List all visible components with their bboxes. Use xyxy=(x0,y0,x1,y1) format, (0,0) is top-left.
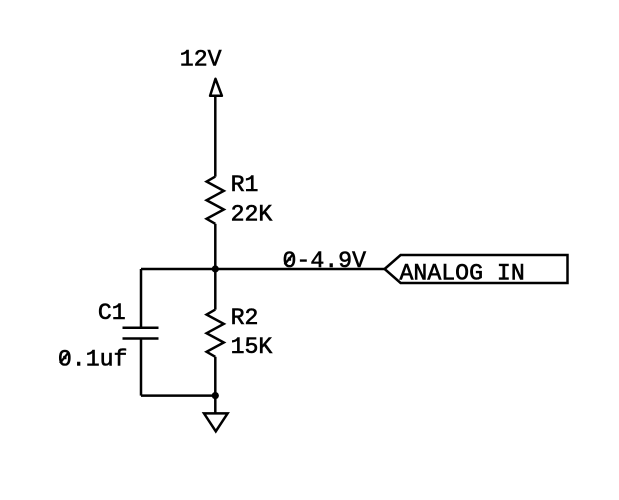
svg-text:12V: 12V xyxy=(180,47,222,73)
svg-text:15K: 15K xyxy=(231,334,273,360)
svg-text:R1: R1 xyxy=(231,172,259,198)
svg-text:0.1uf: 0.1uf xyxy=(58,346,128,372)
svg-text:C1: C1 xyxy=(98,300,126,326)
svg-text:0-4.9V: 0-4.9V xyxy=(283,248,367,274)
svg-text:ANALOG IN: ANALOG IN xyxy=(400,261,525,287)
svg-text:22K: 22K xyxy=(231,202,273,228)
svg-text:R2: R2 xyxy=(231,305,259,331)
